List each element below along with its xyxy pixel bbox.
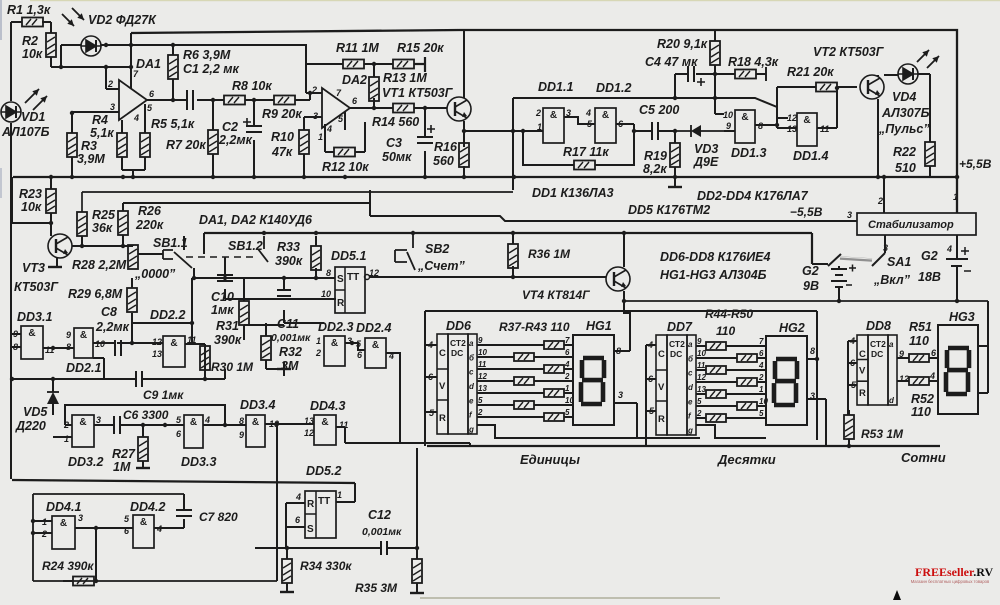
svg-text:R19: R19: [644, 149, 667, 163]
svg-text:2: 2: [564, 372, 570, 381]
wire DD7 left bus: [645, 345, 647, 446]
svg-text:&: &: [331, 338, 338, 349]
junction: [302, 175, 306, 179]
svg-text:R26: R26: [138, 204, 162, 218]
svg-text:&: &: [372, 340, 379, 351]
junction: [622, 231, 626, 235]
svg-text:DD6-DD8 К176ИЕ4: DD6-DD8 К176ИЕ4: [660, 250, 771, 264]
wire DD7 pins: [646, 345, 656, 411]
svg-text:HG1-HG3 АЛ304Б: HG1-HG3 АЛ304Б: [660, 268, 767, 282]
resistor R37: [544, 341, 564, 349]
resistor R34: [282, 559, 292, 583]
wire bus L3b: [370, 190, 857, 221]
wire DD3.1 out: [43, 347, 74, 349]
wire R28 top: [132, 245, 134, 246]
resistor R38: [514, 353, 534, 361]
junction: [622, 299, 626, 303]
resistor R27: [138, 437, 148, 461]
svg-text:S: S: [307, 524, 314, 535]
R32 ground: [277, 368, 291, 370]
light arrows VD1: [25, 89, 39, 103]
svg-text:50мк: 50мк: [382, 150, 412, 164]
gate DD2.3: [324, 336, 345, 366]
wire C11 leads: [283, 278, 285, 323]
resistor R49: [737, 402, 757, 410]
wire C11 to DD2.3: [284, 322, 324, 324]
wire DD6 left bus: [424, 311, 426, 446]
svg-text:С2: С2: [222, 120, 238, 134]
svg-text:2,2мк: 2,2мк: [95, 320, 130, 334]
svg-text:4: 4: [326, 124, 332, 134]
svg-text:DD6: DD6: [446, 319, 472, 333]
R27 ground: [136, 467, 150, 469]
wire R4 R5 leads: [122, 104, 145, 176]
svg-text:HG1: HG1: [586, 319, 612, 333]
wire R29 top: [131, 278, 133, 288]
resistor R9: [274, 96, 295, 105]
wire VT4 to HG1: [624, 301, 630, 347]
wire DD6 out 7: [477, 416, 544, 418]
wire main bus L1: [13, 176, 958, 178]
capacitor C4: [688, 66, 694, 82]
svg-text:R25: R25: [92, 208, 116, 222]
junction: [192, 276, 196, 280]
wire VT4 top: [623, 233, 625, 267]
svg-text:4: 4: [929, 371, 935, 381]
svg-text:R17 11к: R17 11к: [563, 145, 609, 159]
svg-text:c: c: [688, 369, 693, 378]
switch SB1.1: [163, 250, 173, 259]
svg-text:R51: R51: [909, 320, 932, 334]
svg-text:&: &: [321, 417, 328, 428]
svg-text:&: &: [28, 328, 35, 339]
resistor R45: [737, 354, 757, 362]
wire container top: [425, 310, 817, 312]
wire DD4 box: [33, 494, 277, 581]
wire VT2 to VD4: [878, 75, 898, 77]
svg-text:e: e: [688, 397, 693, 406]
display HG3: [938, 325, 978, 414]
svg-text:5: 5: [565, 408, 570, 417]
junction: [511, 129, 515, 133]
counter IC DD7: [656, 335, 696, 435]
svg-text:&: &: [741, 112, 748, 123]
capacitor C11: [277, 290, 291, 296]
wire R2 leads: [50, 22, 52, 67]
svg-text:13: 13: [787, 124, 797, 134]
svg-text:DD3.4: DD3.4: [240, 398, 275, 412]
svg-text:12: 12: [478, 372, 487, 381]
junction: [632, 129, 636, 133]
scan edge artifact bottom: [420, 597, 720, 599]
junction: [51, 377, 55, 381]
svg-text:АЛ107Б: АЛ107Б: [1, 125, 50, 139]
wire DD4.2 out to C7: [154, 519, 184, 528]
capacitor C12: [381, 541, 387, 555]
R35 ground: [410, 592, 424, 594]
resistor R53: [844, 415, 854, 439]
wire C7 top: [183, 494, 185, 510]
wire rail2: [555, 437, 680, 439]
wire C4 leads: [675, 74, 715, 98]
svg-text:DD5 К176ТМ2: DD5 К176ТМ2: [628, 203, 710, 217]
junction: [876, 175, 880, 179]
svg-text:С3: С3: [386, 136, 402, 150]
svg-text:a: a: [889, 340, 894, 349]
junction: [815, 357, 819, 361]
svg-text:R30 1М: R30 1М: [211, 360, 254, 374]
svg-text:DD3.1: DD3.1: [17, 310, 52, 324]
svg-text:DD2.4: DD2.4: [356, 321, 391, 335]
wire R39 to HG1: [564, 368, 573, 370]
wire DD7 out 3: [696, 369, 706, 371]
svg-text:11: 11: [478, 360, 487, 369]
capacitor C3 50мк: [417, 137, 433, 143]
junction: [462, 129, 466, 133]
corner mark: [893, 590, 901, 600]
svg-text:9: 9: [239, 430, 244, 440]
light arrows VD4: [917, 50, 929, 62]
LED/photodiode VD2 ФД27К: [81, 36, 101, 56]
svg-text:1: 1: [318, 132, 323, 142]
svg-text:R16: R16: [434, 140, 458, 154]
wire bus L3a: [123, 203, 370, 211]
junction: [59, 65, 63, 69]
resistor R5: [140, 133, 150, 157]
resistor R22: [925, 142, 935, 166]
wire R53 bottom: [848, 439, 850, 446]
svg-text:С4 47 мк: С4 47 мк: [645, 55, 698, 69]
wire DA1 inputs: [72, 89, 119, 112]
junction: [211, 98, 215, 102]
wire VD5 leads: [52, 380, 54, 415]
svg-text:S: S: [337, 274, 344, 285]
wire HG3 right loop: [978, 301, 988, 393]
junction: [131, 175, 135, 179]
svg-text:R8 10к: R8 10к: [232, 79, 272, 93]
wire VD5 to DD3.2: [53, 436, 72, 438]
junction: [955, 175, 959, 179]
wire VT1 collector: [463, 30, 465, 98]
svg-text:&: &: [60, 518, 67, 529]
junction: [955, 175, 959, 179]
junction: [121, 244, 125, 248]
svg-text:&: &: [140, 517, 147, 528]
resistor R18: [735, 70, 756, 79]
svg-text:G2: G2: [921, 249, 938, 263]
wire DD4.1-DD4.2: [75, 528, 133, 581]
svg-text:1: 1: [565, 384, 570, 393]
wire R30 top: [192, 344, 205, 346]
wire DD1.4 out loop: [817, 88, 837, 128]
svg-text:СТ2: СТ2: [669, 339, 685, 349]
svg-text:3: 3: [847, 210, 852, 220]
wire R53 top: [848, 410, 850, 415]
VT3 emitter bar: [48, 266, 62, 268]
svg-text:10: 10: [321, 289, 331, 299]
capacitor C5 200: [652, 122, 658, 140]
svg-text:&: &: [803, 115, 810, 126]
wire DD2.1 out: [93, 342, 115, 344]
svg-text:„Пульс”: „Пульс”: [878, 122, 930, 136]
R34 ground: [280, 591, 294, 593]
svg-text:220к: 220к: [135, 218, 164, 232]
wire DD2.4 out down: [386, 353, 400, 443]
junction: [511, 231, 515, 235]
svg-text:R6 3,9М: R6 3,9М: [183, 48, 231, 62]
output bubble DD5.1: [365, 275, 370, 280]
wire C12: [255, 547, 417, 549]
resistor R35: [412, 559, 422, 583]
svg-text:13: 13: [152, 349, 162, 359]
wire R43 to HG1: [564, 416, 573, 418]
resistor R28: [128, 245, 138, 269]
resistor R46: [706, 366, 726, 374]
resistor R26: [118, 211, 128, 235]
wire VT3 emitter: [56, 257, 58, 267]
capacitor C7: [176, 510, 192, 516]
wire R3 leads: [71, 113, 73, 176]
svg-text:5,1к: 5,1к: [90, 126, 114, 140]
svg-text:Десятки: Десятки: [717, 452, 776, 467]
wire R29 to DD2.2: [132, 322, 192, 324]
wire R50 to HG2: [726, 417, 766, 419]
svg-text:2: 2: [477, 408, 483, 417]
transistor VT2: [860, 75, 884, 99]
junction: [713, 96, 717, 100]
svg-text:АЛ307Б: АЛ307Б: [881, 106, 930, 120]
svg-text:DD5.2: DD5.2: [306, 464, 341, 478]
junction: [423, 106, 427, 110]
wire DD1.2 out: [616, 124, 634, 131]
op-amp DA1: [119, 80, 147, 120]
wire R36 leads: [512, 233, 514, 277]
capacitor C6: [114, 416, 120, 434]
svg-text:9: 9: [66, 330, 71, 340]
svg-text:„Счет”: „Счет”: [417, 259, 465, 273]
svg-text:Сотни: Сотни: [901, 450, 946, 465]
wire C5: [634, 130, 675, 132]
svg-text:3: 3: [96, 415, 101, 425]
resistor R10: [299, 130, 309, 154]
resistor R7: [208, 130, 218, 154]
svg-text:&: &: [550, 110, 557, 121]
wire VT2 down: [877, 99, 879, 177]
wire R32 leads: [265, 323, 267, 369]
wire R23 to VT3: [50, 223, 52, 236]
svg-text:SB1.1: SB1.1: [153, 236, 188, 250]
junction: [223, 423, 227, 427]
wire R35 bottom: [416, 583, 418, 592]
wire DD3.2 out: [94, 424, 114, 426]
svg-text:1М: 1М: [113, 460, 131, 474]
wire stab pin4 down: [956, 235, 958, 259]
junction: [94, 526, 98, 530]
svg-text:DD1.2: DD1.2: [596, 81, 631, 95]
scan edge artifact left: [0, 0, 2, 40]
wire DD5.1 out to VT4: [370, 276, 606, 278]
junction: [512, 175, 516, 179]
svg-text:C: C: [439, 348, 446, 359]
wire HG2 pin3: [807, 399, 826, 446]
svg-text:1: 1: [337, 490, 342, 500]
wire x277 vertical: [276, 424, 278, 581]
junction: [252, 175, 256, 179]
wire R44 to HG2: [726, 345, 766, 347]
switch SB1.2: [258, 236, 268, 262]
display HG1: [573, 335, 614, 425]
resistor R12: [334, 148, 355, 157]
wire R21 leads: [777, 86, 857, 88]
svg-text:R35 3М: R35 3М: [355, 581, 398, 595]
svg-text:1мк: 1мк: [211, 303, 234, 317]
svg-text:R27: R27: [112, 447, 136, 461]
svg-text:С10: С10: [211, 290, 234, 304]
wire DD2.2 out: [185, 343, 192, 345]
wire DD7 g step: [696, 425, 766, 438]
wire stab pin2: [883, 176, 885, 213]
svg-text:510: 510: [895, 161, 916, 175]
wire DD1.4 inputs: [777, 107, 797, 128]
svg-text:18В: 18В: [918, 270, 941, 284]
junction: [314, 276, 318, 280]
svg-text:V: V: [859, 366, 866, 377]
svg-text:c: c: [469, 368, 474, 377]
wire DD3.1 inputs: [12, 334, 21, 347]
diode VD5: [47, 392, 59, 404]
svg-text:9: 9: [726, 121, 731, 131]
wire C2 leads: [253, 100, 255, 176]
display HG2: [766, 336, 807, 425]
svg-text:390к: 390к: [275, 254, 303, 268]
svg-text:DC: DC: [670, 349, 682, 359]
svg-text:8: 8: [239, 416, 244, 426]
gate DD3.3: [184, 415, 203, 448]
svg-text:3: 3: [313, 111, 318, 121]
svg-text:R7 20к: R7 20к: [166, 138, 206, 152]
svg-text:4: 4: [204, 415, 210, 425]
wire DD3.2 feedback loop: [65, 405, 225, 425]
svg-text:С9 1мк: С9 1мк: [143, 388, 184, 402]
junction: [423, 175, 427, 179]
wire VT1 emitter: [463, 121, 465, 143]
junction: [94, 579, 98, 583]
gate DD2.2: [163, 336, 185, 367]
resistor R40: [514, 377, 534, 385]
svg-text:Единицы: Единицы: [520, 452, 580, 467]
wire R19 leads: [674, 131, 676, 187]
svg-text:SB1.2: SB1.2: [228, 239, 263, 253]
resistor R8: [224, 96, 245, 105]
wire DD6 out 4: [477, 380, 514, 382]
junction: [673, 96, 677, 100]
wire DA2 out: [350, 107, 447, 109]
svg-text:e: e: [469, 396, 474, 405]
wire R48 to HG2: [726, 393, 766, 395]
resistor R36: [508, 244, 518, 268]
svg-text:110: 110: [716, 324, 735, 338]
svg-text:2: 2: [758, 373, 764, 382]
svg-text:R10: R10: [271, 130, 294, 144]
wire R41 to HG1: [564, 392, 573, 394]
svg-text:11: 11: [339, 420, 348, 430]
resistor R20: [710, 41, 720, 65]
svg-text:4: 4: [564, 360, 570, 369]
wire DD1.1-DD1.2: [564, 117, 595, 124]
svg-text:R21 20к: R21 20к: [787, 65, 834, 79]
LED/photodiode VD1 АЛ107Б: [1, 102, 21, 122]
wire R31 leads: [243, 278, 245, 340]
transistor VT4: [606, 267, 630, 291]
svg-text:С6 3300: С6 3300: [123, 408, 169, 422]
resistor R30: [200, 346, 210, 370]
svg-text:R53 1М: R53 1М: [861, 427, 904, 441]
svg-text:SB2: SB2: [425, 242, 449, 256]
transistor VT1: [447, 97, 471, 121]
svg-text:R14 560: R14 560: [372, 115, 419, 129]
junction: [171, 43, 175, 47]
resistor R47: [737, 378, 757, 386]
wire left bus lower: [10, 123, 12, 479]
junction: [223, 276, 227, 280]
svg-text:1: 1: [953, 192, 958, 202]
wire R38 to HG1: [534, 356, 573, 358]
svg-text:110: 110: [909, 334, 929, 348]
wire R20 leads: [714, 30, 716, 98]
wire DD8 pins: [848, 341, 857, 385]
wire R21 left down: [776, 87, 778, 107]
resistor R13: [369, 77, 379, 101]
svg-text:9: 9: [697, 337, 702, 346]
wire R46 to HG2: [726, 369, 766, 371]
svg-text:DD2.1: DD2.1: [66, 361, 101, 375]
junction: [10, 377, 14, 381]
svg-text:КТ503Г: КТ503Г: [14, 280, 59, 294]
op-amp DA2: [322, 88, 350, 128]
svg-text:С12: С12: [368, 508, 391, 522]
wire big to DD5.2 pin1: [336, 483, 355, 502]
junction: [31, 519, 35, 523]
junction: [775, 123, 779, 127]
wire stab pin3 down: [884, 235, 886, 253]
junction: [955, 299, 959, 303]
wire DD4.1 inputs: [33, 521, 52, 533]
wire DD6 pins: [425, 345, 437, 412]
gate DD1.3: [735, 110, 755, 143]
svg-text:„0000”: „0000”: [134, 267, 176, 281]
svg-text:R9 20к: R9 20к: [262, 107, 302, 121]
wire R27 top: [142, 425, 144, 437]
junction: [51, 346, 55, 350]
svg-text:R: R: [337, 298, 345, 309]
svg-text:R1 1,3к: R1 1,3к: [7, 3, 51, 17]
wire VD2 leads: [61, 45, 306, 67]
gate DD1.2: [595, 108, 616, 143]
gate DD2.4: [365, 338, 386, 368]
junction: [882, 175, 886, 179]
svg-text:DD1.1: DD1.1: [538, 80, 573, 94]
svg-text:a: a: [469, 339, 474, 348]
wire bottom long: [12, 480, 355, 483]
svg-text:13: 13: [304, 416, 314, 426]
resistor R25: [77, 212, 87, 236]
svg-text:a: a: [688, 340, 693, 349]
capacitor C9: [136, 371, 142, 387]
wire R52 leads: [897, 380, 938, 382]
wire R27 bottom: [142, 461, 144, 468]
wire HG1 pin8: [614, 347, 630, 351]
junction: [372, 62, 376, 66]
